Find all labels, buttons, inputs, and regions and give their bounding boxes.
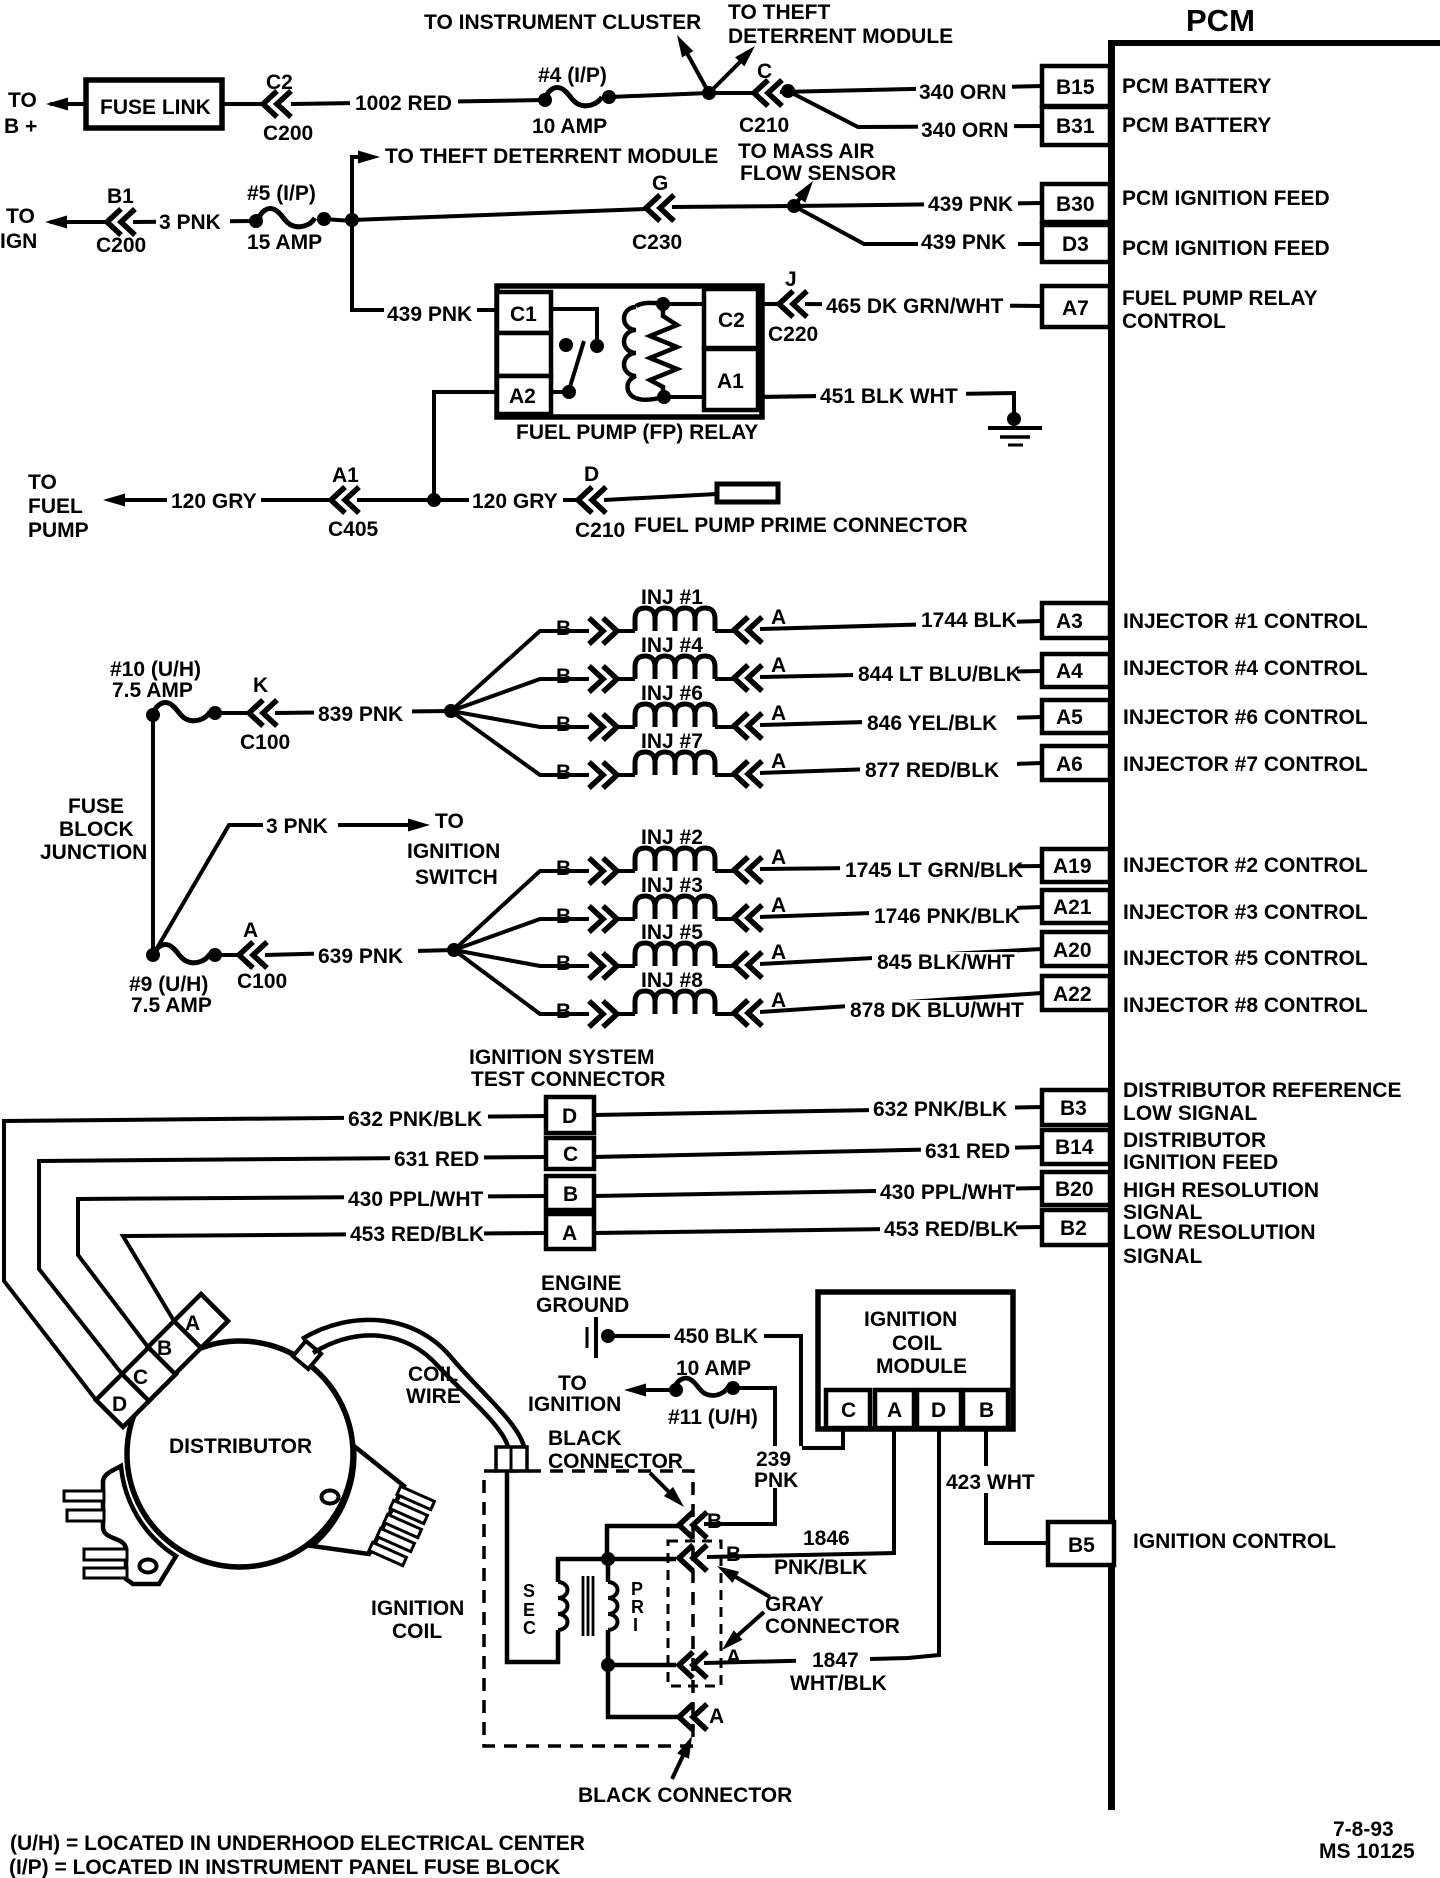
svg-text:TEST CONNECTOR: TEST CONNECTOR [471,1068,665,1091]
svg-text:B15: B15 [1056,76,1095,99]
terminal A6 [1042,746,1110,780]
svg-text:1746 PNK/BLK: 1746 PNK/BLK [874,905,1020,928]
wire [715,869,734,873]
svg-text:1846: 1846 [803,1527,850,1550]
fuel pump relay outline [497,286,762,417]
svg-text:C200: C200 [96,234,146,257]
svg-text:IGNITION: IGNITION [864,1308,957,1331]
svg-text:FLOW SENSOR: FLOW SENSOR [740,162,896,185]
svg-text:B: B [556,665,571,688]
coil wire outer [302,1320,524,1447]
connector B [589,953,617,979]
svg-text:451 BLK WHT: 451 BLK WHT [820,385,958,408]
relay internal node bottom [657,390,671,404]
svg-text:C: C [757,60,772,83]
wire fuse to junction [609,93,709,97]
svg-text:FUEL PUMP (FP) RELAY: FUEL PUMP (FP) RELAY [516,421,758,444]
relay internal node top [656,297,670,311]
terminal B14 [1042,1130,1110,1164]
pad hole [140,1560,157,1573]
svg-text:B2: B2 [1060,1217,1087,1240]
svg-text:465 DK GRN/WHT: 465 DK GRN/WHT [826,295,1004,318]
svg-text:DISTRIBUTOR REFERENCE: DISTRIBUTOR REFERENCE [1123,1079,1401,1102]
fuse #9 U/H 7.5 AMP [146,948,160,962]
engine ground symbol [586,1327,589,1348]
arrow black connector bottom [672,1745,688,1779]
fuse block junction vertical wire [151,715,155,955]
svg-text:B: B [563,1183,578,1206]
wire 1745 LT GRN/BLK [760,866,1042,869]
terminal A20 [1042,932,1110,966]
svg-text:R: R [631,1597,644,1617]
svg-text:A: A [771,846,786,869]
wire branch to B31 340 ORN [788,91,1042,127]
svg-text:439 PNK: 439 PNK [921,231,1006,254]
svg-text:A4: A4 [1056,660,1083,683]
svg-text:PCM BATTERY: PCM BATTERY [1122,75,1271,98]
wire up to theft deterrent arrow [352,157,370,220]
wire injector branch [451,631,589,711]
relay switch contact [590,339,604,353]
svg-text:PCM: PCM [1186,3,1255,38]
svg-text:INJ #3: INJ #3 [641,874,703,897]
svg-text:INJECTOR #8 CONTROL: INJECTOR #8 CONTROL [1123,994,1368,1017]
svg-text:632 PNK/BLK: 632 PNK/BLK [348,1108,482,1131]
wire [617,917,635,921]
svg-text:FUSE: FUSE [68,795,124,818]
svg-text:423 WHT: 423 WHT [946,1471,1035,1494]
wire 3 PNK [133,221,256,222]
svg-text:D: D [562,1105,577,1128]
svg-text:A: A [771,606,786,629]
svg-text:839 PNK: 839 PNK [318,703,403,726]
distributor connector pad left upper [103,1466,176,1584]
arrow black connector top [650,1473,678,1501]
terminal B31 [1042,107,1110,145]
wire fuse to junction [324,219,352,221]
svg-text:639 PNK: 639 PNK [318,945,403,968]
connector A [734,761,762,787]
svg-text:844 LT BLU/BLK: 844 LT BLU/BLK [858,663,1021,686]
injector coil INJ #5 [635,943,715,966]
svg-text:7.5 AMP: 7.5 AMP [131,994,212,1017]
wire 465 DK GRN/WHT to A7 [805,304,1042,306]
test connector wire B right to B20 [594,1188,1042,1196]
svg-text:INJ #5: INJ #5 [641,921,703,944]
svg-text:A19: A19 [1053,855,1092,878]
connector B [589,762,617,788]
terminal A22 [1042,976,1110,1010]
relay switch contact fixed [559,338,573,352]
junction node [702,86,716,100]
svg-text:C100: C100 [240,731,290,754]
svg-text:B14: B14 [1055,1136,1094,1159]
svg-text:P: P [631,1579,643,1599]
junction node 439 PNK [787,199,801,213]
svg-text:A: A [185,1312,200,1335]
svg-text:INJECTOR #5 CONTROL: INJECTOR #5 CONTROL [1123,947,1368,970]
connector B1 of C200 [107,209,135,235]
svg-text:PNK: PNK [754,1469,798,1492]
wire injector branch [451,711,589,775]
svg-text:439 PNK: 439 PNK [387,303,472,326]
svg-text:A: A [771,702,786,725]
terminal B30 [1042,184,1110,222]
connector J of C220 [779,291,807,317]
wire injector branch [451,711,589,727]
PCM top edge line [1108,40,1440,46]
svg-text:DISTRIBUTOR: DISTRIBUTOR [1123,1129,1266,1152]
connector B black [679,1512,707,1538]
svg-text:10 AMP: 10 AMP [676,1357,751,1380]
terminal A21 [1042,890,1110,923]
svg-text:A22: A22 [1053,983,1092,1006]
svg-text:C405: C405 [328,518,379,541]
svg-text:TO MASS AIR: TO MASS AIR [738,140,875,163]
wire 878 DK BLU/WHT [760,993,1042,1012]
connector A of C100 [239,942,267,968]
injector coil INJ #3 [635,896,715,919]
ignition coil module box [818,1292,1013,1429]
relay pin C2 [704,289,758,348]
svg-text:453 RED/BLK: 453 RED/BLK [350,1223,484,1246]
arrow TO IGNITION [634,1388,676,1392]
connector A [734,905,762,931]
svg-text:B: B [556,617,571,640]
svg-text:631 RED: 631 RED [925,1140,1010,1163]
svg-text:#10 (U/H): #10 (U/H) [110,658,201,681]
svg-text:B: B [556,905,571,928]
svg-text:B: B [979,1399,994,1422]
junction node coil bottom [601,1658,615,1672]
svg-text:1002 RED: 1002 RED [355,92,452,115]
arrow to IGN [45,216,67,229]
svg-text:PNK/BLK: PNK/BLK [774,1556,867,1579]
connector D of C210 [578,487,606,513]
test connector wire A left 453 RED/BLK [123,1233,546,1321]
pad pin 1 [64,1491,104,1501]
svg-text:3 PNK: 3 PNK [159,211,221,234]
svg-text:B: B [556,761,571,784]
svg-text:B20: B20 [1055,1178,1094,1201]
relay switch common [562,385,576,399]
svg-text:A: A [887,1399,902,1422]
relay switch wire from C1 [551,309,597,340]
svg-text:INJECTOR #7 CONTROL: INJECTOR #7 CONTROL [1123,753,1368,776]
svg-text:CONNECTOR: CONNECTOR [765,1615,900,1638]
connector C2 of C200 [263,91,291,117]
wire to B30 439 PNK [794,203,1042,206]
test connector pin D [546,1097,594,1133]
injector coil INJ #4 [635,656,715,679]
connector A black [679,1704,707,1730]
svg-text:A1: A1 [717,370,744,393]
terminal D3 [1042,225,1110,262]
ignition coil secondary winding SEC [507,1471,558,1662]
svg-text:845 BLK/WHT: 845 BLK/WHT [877,951,1015,974]
cap terminal C [122,1347,176,1401]
svg-text:C210: C210 [575,519,625,542]
terminal B20 [1042,1172,1110,1205]
injector coil INJ #6 [635,704,715,727]
svg-text:LOW SIGNAL: LOW SIGNAL [1123,1102,1257,1125]
svg-text:WIRE: WIRE [406,1385,461,1408]
svg-text:450 BLK: 450 BLK [674,1325,758,1348]
injector coil INJ #1 [635,608,715,631]
svg-text:DISTRIBUTOR: DISTRIBUTOR [169,1435,312,1458]
wire [617,773,635,777]
wire 877 RED/BLK [760,763,1042,773]
wire [715,1012,734,1016]
svg-text:430 PPL/WHT: 430 PPL/WHT [348,1188,484,1211]
svg-text:CONTROL: CONTROL [1122,310,1226,333]
svg-text:IGNITION CONTROL: IGNITION CONTROL [1133,1530,1336,1553]
svg-text:INJECTOR #6 CONTROL: INJECTOR #6 CONTROL [1123,706,1368,729]
svg-text:INJ #4: INJ #4 [641,634,703,657]
svg-text:A7: A7 [1062,297,1089,320]
svg-text:INJECTOR #2 CONTROL: INJECTOR #2 CONTROL [1123,854,1368,877]
relay pin C1 [497,292,551,333]
svg-text:IGNITION: IGNITION [371,1597,464,1620]
connector B [589,1001,617,1027]
wire 450 BLK to module C [612,1336,843,1448]
svg-text:C1: C1 [510,303,537,326]
arrow to fuel pump [103,494,125,507]
gray connector dashed outline [668,1541,721,1686]
junction node lower bank [447,943,461,957]
wire coil to A1 [664,395,704,399]
connector G of C230 [646,195,674,221]
svg-text:A: A [771,750,786,773]
junction after C210 [781,84,795,98]
svg-text:PCM BATTERY: PCM BATTERY [1122,114,1271,137]
wire to fuel pump prime connector [604,494,717,500]
svg-text:239: 239 [756,1448,791,1471]
svg-text:D3: D3 [1062,233,1089,256]
coil core [582,1576,585,1636]
connector B [589,858,617,884]
svg-text:INJ #2: INJ #2 [641,826,703,849]
terminal B3 [1042,1090,1110,1125]
connector A [734,952,762,978]
wire [715,677,734,681]
svg-text:GRAY: GRAY [765,1593,824,1616]
test connector wire C left 631 RED [39,1157,546,1374]
svg-text:I: I [633,1615,638,1635]
fuse #4 I/P 10 AMP [538,93,552,107]
injector coil INJ #8 [635,991,715,1014]
wire fuse link to C2 [222,102,265,106]
svg-text:631 RED: 631 RED [394,1148,479,1171]
arrow gray connector to A [728,1612,764,1644]
svg-text:TO: TO [435,810,464,833]
test connector pin A [546,1214,594,1249]
wire A1 451 BLK WHT to ground [758,393,1014,413]
wire [617,869,635,873]
wire to black connector A bottom [608,1665,679,1717]
svg-text:TO THEFT DETERRENT MODULE: TO THEFT DETERRENT MODULE [385,145,718,168]
wire 1744 BLK [760,621,1042,629]
wire relay A2 down to 120 GRY junction [434,392,497,499]
test connector wire D right to B3 [594,1107,1042,1115]
svg-text:FUEL PUMP PRIME CONNECTOR: FUEL PUMP PRIME CONNECTOR [634,514,968,537]
svg-text:10 AMP: 10 AMP [532,115,607,138]
wire to junction 2 [672,206,794,207]
svg-text:1847: 1847 [812,1649,859,1672]
svg-text:INJ #1: INJ #1 [641,586,703,609]
svg-text:TO: TO [558,1372,587,1395]
svg-text:B: B [157,1337,172,1360]
svg-text:G: G [652,172,668,195]
svg-text:IGNITION: IGNITION [528,1393,621,1416]
wire 845 BLK/WHT [760,949,1042,964]
wire to junction [357,498,578,502]
svg-text:PUMP: PUMP [28,519,89,542]
arrow gray connector to B [724,1570,770,1597]
pad pin 3 [84,1549,127,1560]
terminal B5 [1048,1522,1114,1565]
svg-text:1744 BLK: 1744 BLK [921,609,1017,632]
module pin D [917,1390,961,1428]
svg-text:C220: C220 [768,323,818,346]
wire primary top to black connector B [607,1526,679,1557]
svg-text:J: J [785,268,797,291]
svg-text:C2: C2 [266,71,293,94]
svg-text:TO: TO [8,89,37,112]
svg-text:PCM IGNITION FEED: PCM IGNITION FEED [1122,187,1330,210]
fuse #5 I/P 15 AMP [249,214,263,228]
svg-text:PCM IGNITION FEED: PCM IGNITION FEED [1122,237,1330,260]
svg-text:B +: B + [4,115,37,138]
wire injector branch [454,950,589,966]
pad pin 4 [84,1568,127,1578]
svg-text:#5 (I/P): #5 (I/P) [247,182,316,205]
svg-text:B5: B5 [1068,1534,1095,1557]
svg-text:A: A [771,941,786,964]
svg-text:#11 (U/H): #11 (U/H) [668,1406,758,1429]
module pin C [826,1390,870,1428]
svg-text:3 PNK: 3 PNK [266,815,328,838]
svg-text:877 RED/BLK: 877 RED/BLK [865,759,999,782]
wire 1746 PNK/BLK [760,907,1042,917]
svg-text:A: A [562,1222,577,1245]
svg-text:846 YEL/BLK: 846 YEL/BLK [867,712,997,735]
svg-text:TO: TO [6,205,35,228]
svg-text:TO INSTRUMENT CLUSTER: TO INSTRUMENT CLUSTER [424,11,701,34]
svg-text:COIL: COIL [892,1332,942,1355]
svg-text:IGNITION FEED: IGNITION FEED [1123,1151,1278,1174]
svg-text:#9 (U/H): #9 (U/H) [129,973,208,996]
svg-text:15 AMP: 15 AMP [247,231,322,254]
lug pins [397,1486,434,1509]
wire 239 PNK to black connector B [704,1388,775,1524]
wire 3 PNK to ignition switch [153,825,263,955]
svg-text:DETERRENT MODULE: DETERRENT MODULE [728,25,953,48]
connector C of C210 [754,80,782,106]
label 1846 PNK/BLK [799,1525,863,1546]
fuse link F1 [86,80,222,128]
svg-text:WHT/BLK: WHT/BLK [790,1672,887,1695]
svg-text:430 PPL/WHT: 430 PPL/WHT [880,1181,1016,1204]
svg-text:D: D [584,463,599,486]
distributor cap connector strip [96,1294,228,1427]
svg-text:A1: A1 [332,464,359,487]
PCM module boundary line [1108,40,1115,1810]
svg-text:120 GRY: 120 GRY [472,490,558,513]
wire [617,964,635,968]
wire [617,629,635,633]
wire [715,917,734,921]
relay pin A1 [704,349,758,410]
svg-text:BLOCK: BLOCK [59,818,134,841]
wire C2 to C220 [758,302,779,306]
svg-text:CONNECTOR: CONNECTOR [548,1450,683,1473]
connector A [734,713,762,739]
svg-text:A3: A3 [1056,610,1083,633]
wire 846 YEL/BLK [760,717,1042,725]
fuse #10 U/H 7.5 AMP [146,708,160,722]
svg-text:C210: C210 [739,114,789,137]
wire coil to C2 [663,302,704,306]
svg-text:ENGINE: ENGINE [541,1272,622,1295]
wire module A to 1846 PNK/BLK [707,1429,894,1557]
svg-text:D: D [112,1393,127,1416]
wire [715,773,734,777]
coil wire inner [313,1335,508,1447]
relay coil resistor [650,304,677,397]
svg-text:D: D [931,1399,946,1422]
svg-text:A6: A6 [1056,753,1083,776]
svg-text:A: A [771,654,786,677]
svg-text:INJ #8: INJ #8 [641,969,703,992]
svg-text:COIL: COIL [392,1620,442,1643]
junction node coil top [601,1552,615,1566]
black connector dashed outline [484,1471,693,1746]
connector B [589,906,617,932]
svg-text:453 RED/BLK: 453 RED/BLK [884,1218,1018,1241]
wire 439 PNK down to relay C1 [352,220,384,310]
svg-text:B: B [556,713,571,736]
svg-text:TO THEFT: TO THEFT [728,1,830,24]
arrow to instrument cluster [683,46,709,93]
svg-text:439 PNK: 439 PNK [928,193,1013,216]
wire junction to C230 [352,209,646,220]
wire junction to C210 [709,91,754,95]
connector A gray [679,1652,707,1678]
svg-text:340 ORN: 340 ORN [919,81,1007,104]
svg-text:B: B [556,952,571,975]
connector A [734,665,762,691]
wire 1002 RED [291,100,545,104]
cap terminal B [148,1320,202,1374]
fuel pump prime connector [717,484,778,502]
arrow to theft deterrent module [709,54,748,93]
test connector wire B left 430 PPL/WHT [78,1196,546,1347]
svg-text:SWITCH: SWITCH [415,866,498,889]
relay coil winding [624,307,636,398]
svg-text:340 ORN: 340 ORN [921,119,1009,142]
svg-text:1745 LT GRN/BLK: 1745 LT GRN/BLK [845,859,1023,882]
svg-text:FUEL: FUEL [28,495,83,518]
wire: ignition feed row [50,220,107,224]
svg-text:C230: C230 [632,231,682,254]
svg-text:B31: B31 [1056,115,1095,138]
junction node 3 PNK [345,213,359,227]
distributor lug right [312,1446,404,1554]
arrow to mass air flow sensor [794,188,808,206]
cap terminal D [96,1373,150,1427]
svg-text:S: S [523,1581,535,1601]
